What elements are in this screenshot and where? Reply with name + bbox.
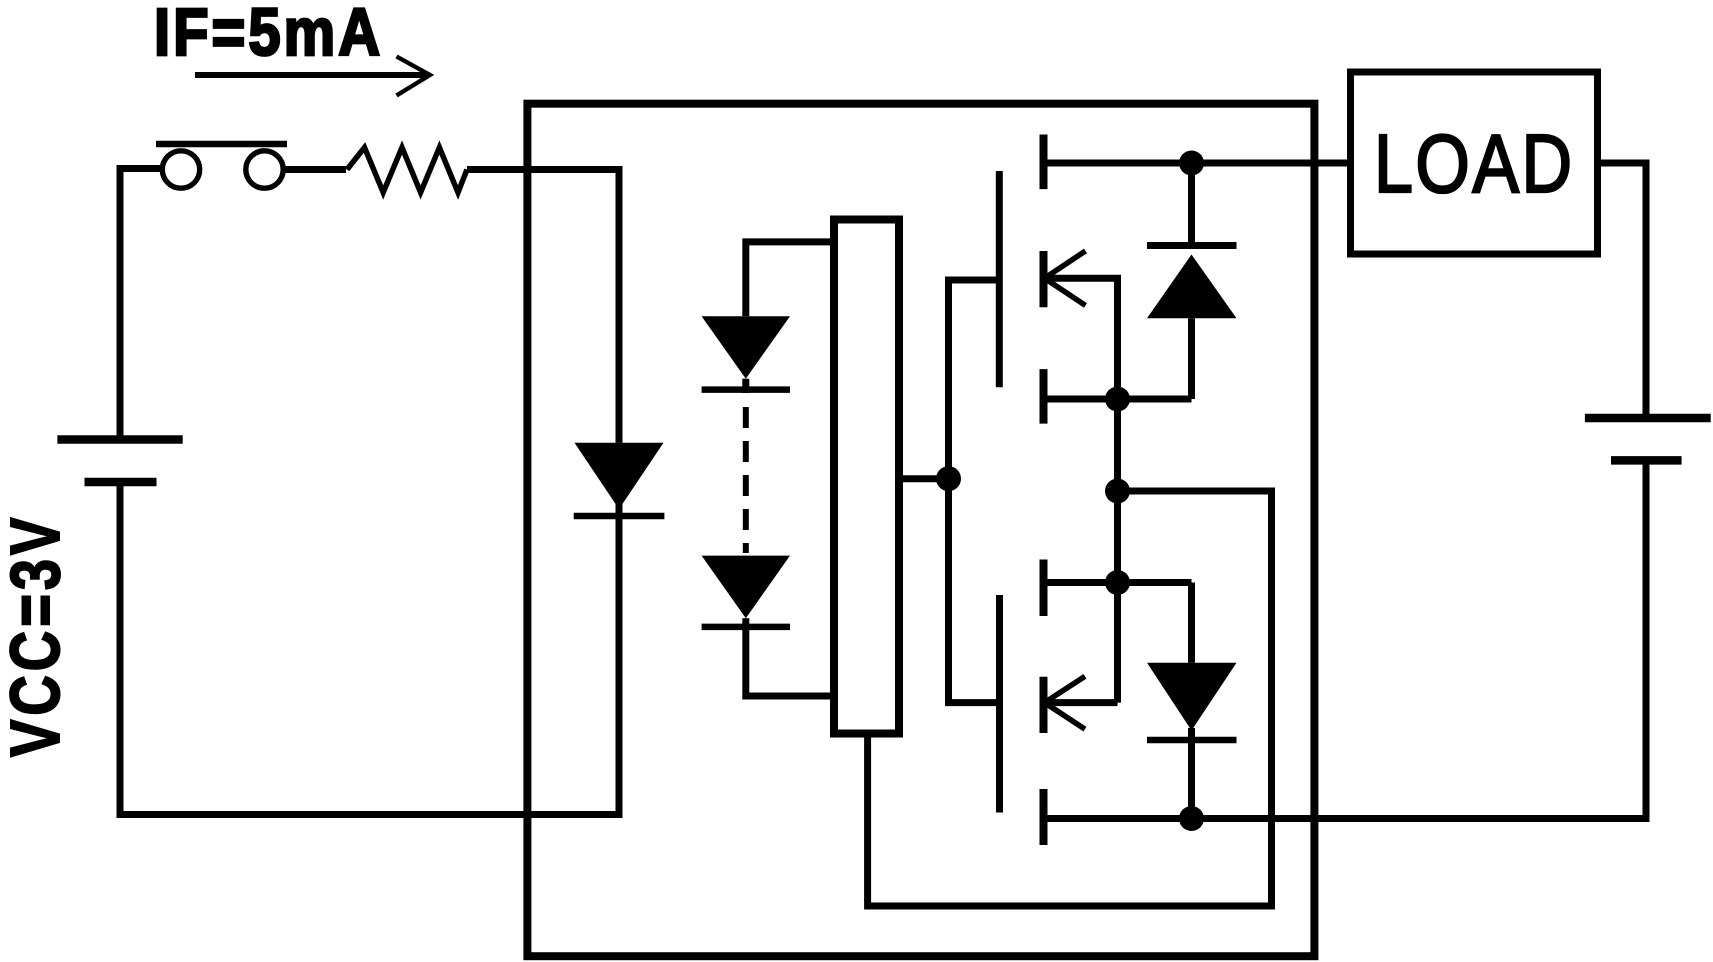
junction dot source node [1105, 479, 1130, 504]
common source line [1114, 399, 1121, 703]
wire: switch to resistor [283, 166, 346, 173]
wire: control output to gate bus [899, 475, 949, 482]
dashed link (multi-diode stack) [743, 407, 749, 553]
control circuit U1 [834, 220, 899, 734]
photodiode array PD2 [702, 556, 830, 696]
wire: source node to control return [868, 491, 1272, 906]
svg-text:IF=5mA: IF=5mA [154, 0, 383, 70]
wire: Q2 drain rail [1044, 815, 1315, 822]
wire: Q1 drain rail to LOAD [1044, 160, 1351, 167]
wire: VCC+ to switch [120, 169, 160, 440]
MOSFET Q2 (bottom) [1000, 560, 1192, 846]
junction dot Q2 source [1105, 570, 1130, 595]
battery VCC=3V [57, 440, 182, 483]
LED D1 (input) [574, 443, 665, 516]
junction dot Q2 drain [1179, 806, 1204, 831]
wire: LED cathode to VCC- [120, 482, 619, 815]
svg-text:VCC=3V: VCC=3V [0, 514, 74, 757]
MOSFET Q1 (top) [999, 135, 1191, 424]
junction dot gate node [936, 466, 961, 491]
body diode D4 [1147, 583, 1237, 819]
junction dot Q1 drain [1179, 151, 1204, 176]
gate bus wire [949, 280, 1000, 703]
wire: load supply - to Q2 drain [1314, 464, 1646, 819]
battery B2 (load supply) [1585, 418, 1711, 460]
body diode D3 [1147, 163, 1237, 399]
LOAD box [1351, 72, 1598, 254]
relay package box [527, 104, 1314, 957]
wire: LOAD to load supply + [1598, 163, 1647, 414]
wire: resistor to LED anode [467, 170, 619, 443]
junction dot Q1 source [1105, 387, 1130, 412]
switch S1 [156, 144, 287, 188]
current flow arrow [195, 57, 430, 96]
photodiode array PD1 [702, 242, 830, 393]
resistor R1 [347, 148, 467, 193]
svg-text:LOAD: LOAD [1374, 119, 1575, 211]
